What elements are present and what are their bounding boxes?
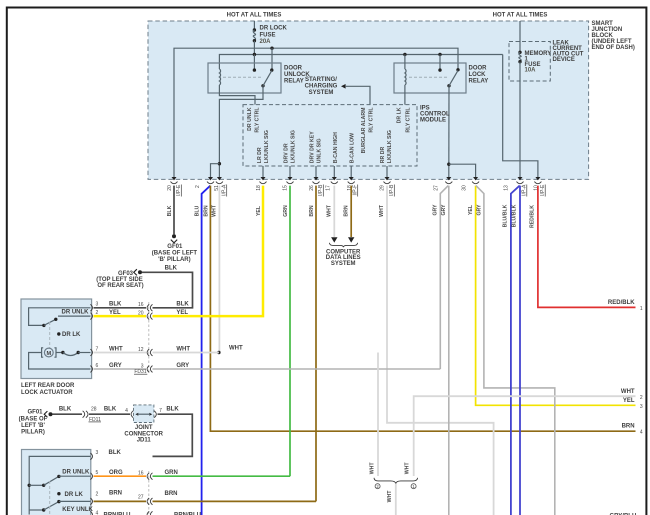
svg-text:BLK: BLK xyxy=(166,406,179,412)
wire K2 switch output to pins 27/30 xyxy=(448,86,450,178)
svg-text:13: 13 xyxy=(503,185,509,191)
relay K1 contact B (ground side) xyxy=(270,68,273,71)
wire GRY pin 30 (bend) down to bottom xyxy=(476,186,555,515)
wire rail 2 (power rail from DR LOCK fuse) xyxy=(219,55,502,70)
svg-text:RLY CTRL: RLY CTRL xyxy=(369,107,375,133)
mech linkage dashed (box1) xyxy=(49,322,51,348)
label LEAK CURRENT AUTO CUT DEVICE xyxy=(553,41,584,64)
wire from HOT AT ALL TIMES to MEMORY fuse xyxy=(519,21,521,52)
svg-text:BLK: BLK xyxy=(165,266,178,272)
svg-text:LEFT 'B': LEFT 'B' xyxy=(21,423,45,429)
label SMART JUNCTION BLOCK (UNDER LEFT END OF DASH) xyxy=(592,21,635,51)
wire contact to pin 5 xyxy=(59,475,91,477)
svg-text:DOOR: DOOR xyxy=(284,66,303,72)
wire WHT pin 17 B-CAN HIGH to data lines xyxy=(333,186,335,237)
wire rail2 to K2 contact A xyxy=(439,55,441,71)
leak current auto cut device dashed box xyxy=(509,42,550,82)
svg-text:LK/UNLK SIG: LK/UNLK SIG xyxy=(291,130,297,163)
svg-text:GRN: GRN xyxy=(283,205,289,217)
svg-text:UNLK SIG: UNLK SIG xyxy=(317,138,323,163)
SJB connector row arrows and connector marks xyxy=(171,177,542,184)
svg-text:(BASE OF LEFT: (BASE OF LEFT xyxy=(152,251,198,257)
svg-text:2: 2 xyxy=(96,310,99,316)
wire GRY pin 27 (bend) to rear actuator GRY xyxy=(440,186,448,369)
wire BLK GF01 to connector FD11 xyxy=(53,413,83,415)
svg-text:BLK: BLK xyxy=(59,406,72,412)
fuse F1 DR LOCK FUSE 20A xyxy=(253,26,288,46)
wire WHT row pin7/12 xyxy=(94,352,147,354)
wire YEL pin 18 to actuator (highlighted) xyxy=(153,186,264,317)
terminal circled 2 xyxy=(375,484,380,489)
svg-text:DEVICE: DEVICE xyxy=(553,57,575,63)
switch arm DR UNLK (box1) xyxy=(42,324,45,327)
svg-text:LK/UNLK SIG: LK/UNLK SIG xyxy=(264,130,270,163)
svg-text:17: 17 xyxy=(325,185,331,191)
wire from HOT AT ALL TIMES to DR LOCK fuse xyxy=(253,21,255,30)
svg-text:7: 7 xyxy=(96,346,99,352)
wire fuse output down to power rail 2 xyxy=(253,41,255,55)
smart junction block (SJB) box xyxy=(148,21,589,179)
svg-text:20: 20 xyxy=(138,310,144,316)
svg-text:'B' PILLAR): 'B' PILLAR) xyxy=(158,257,191,263)
svg-text:27: 27 xyxy=(433,185,439,191)
wire WHT pin 51 down to splice xyxy=(218,186,220,353)
svg-text:12: 12 xyxy=(138,347,144,353)
joint connector JD11 box xyxy=(134,405,154,423)
svg-text:DR LOCK: DR LOCK xyxy=(260,26,288,32)
ground GF03 point xyxy=(96,269,143,289)
svg-text:WHT: WHT xyxy=(379,204,385,217)
svg-text:GF01: GF01 xyxy=(27,409,43,415)
wire WHT right edge pin 2 to circled terminal 1 xyxy=(414,396,636,476)
svg-text:2: 2 xyxy=(96,491,99,497)
svg-text:RED/BLK: RED/BLK xyxy=(608,300,635,306)
svg-text:WHT: WHT xyxy=(109,346,123,352)
svg-text:M: M xyxy=(46,351,51,357)
svg-text:4: 4 xyxy=(96,511,99,515)
svg-text:30: 30 xyxy=(462,185,468,191)
svg-text:GRY: GRY xyxy=(433,204,439,216)
contact DR LK (box1) xyxy=(57,332,60,335)
connector C1 dashed line FD31 xyxy=(148,302,150,374)
wire BRN row pin2/27 xyxy=(94,500,147,502)
svg-text:MODULE: MODULE xyxy=(420,118,446,124)
connector arcs box1 rows xyxy=(147,304,149,311)
svg-text:BLU: BLU xyxy=(195,205,201,216)
svg-text:(TOP LEFT SIDE: (TOP LEFT SIDE xyxy=(96,277,142,283)
svg-text:LOCK: LOCK xyxy=(469,72,487,78)
switch arm DR UNLK (box2) xyxy=(29,484,44,486)
node rail2 to K2 contact A xyxy=(438,53,441,56)
label DOOR UNLOCK RELAY xyxy=(284,66,310,85)
node splice of unlock output xyxy=(218,162,221,165)
wire BRN pin 18 B-CAN LOW to data lines xyxy=(350,186,352,237)
relay K1 switch arm xyxy=(261,84,264,87)
svg-text:28: 28 xyxy=(91,407,97,413)
svg-text:2: 2 xyxy=(640,395,643,401)
svg-text:DR LK: DR LK xyxy=(62,332,81,338)
svg-text:JOINT: JOINT xyxy=(135,425,153,431)
wire rail 1 (ground rail from pin 20) xyxy=(174,48,458,177)
svg-text:HOT AT ALL TIMES: HOT AT ALL TIMES xyxy=(493,13,548,19)
wire internal from pin 3 to switch pivot xyxy=(29,308,91,326)
svg-text:27: 27 xyxy=(138,494,144,500)
node splice of lock output xyxy=(447,163,450,166)
node rail1 / unlock relay contact branch xyxy=(270,47,273,50)
connector C2 dashed line xyxy=(148,471,150,515)
svg-text:4: 4 xyxy=(640,430,643,436)
relay K2 internal dashed link xyxy=(409,76,447,78)
connector FD11 marks 28 xyxy=(83,411,85,418)
svg-text:STARTING/: STARTING/ xyxy=(305,77,337,83)
node rail2 to K2 coil xyxy=(403,53,406,56)
svg-text:4: 4 xyxy=(125,408,128,414)
svg-text:YEL: YEL xyxy=(176,310,188,316)
svg-text:LK/UNLK SIG: LK/UNLK SIG xyxy=(387,130,393,163)
svg-text:WHT: WHT xyxy=(176,346,190,352)
svg-text:WHT: WHT xyxy=(229,345,243,351)
wire K1 coil bottom to IPS DR UNLK RLY CTRL xyxy=(219,85,255,105)
wire K2 coil bottom to IPS DR LK RLY CTRL xyxy=(404,85,406,105)
svg-text:16: 16 xyxy=(138,302,144,308)
svg-text:3: 3 xyxy=(640,404,643,410)
label IPS CONTROL MODULE xyxy=(420,106,450,124)
wire BLU pin 2 down to bottom xyxy=(202,186,211,515)
actuator M2 front door lock actuator box xyxy=(22,450,91,515)
svg-text:26: 26 xyxy=(309,185,315,191)
wire K1 switch output to pins 2/51 xyxy=(219,86,263,178)
svg-text:SYSTEM: SYSTEM xyxy=(309,90,334,96)
wire BLK joint connector to front actuator pin 3 xyxy=(153,414,193,456)
contact DR LK (box2) xyxy=(57,492,60,495)
svg-text:SYSTEM: SYSTEM xyxy=(331,261,356,267)
svg-text:DRV DR KEY: DRV DR KEY xyxy=(310,131,316,163)
svg-text:(BASE OF: (BASE OF xyxy=(19,416,48,422)
svg-text:BLK: BLK xyxy=(176,302,189,308)
wire GRY pin 27 straight down to bottom xyxy=(448,186,450,515)
svg-text:20: 20 xyxy=(167,185,173,191)
svg-text:BLU/BLK: BLU/BLK xyxy=(512,204,518,227)
node internal branch (box2) xyxy=(28,484,31,487)
relay K2 DOOR LOCK RELAY box xyxy=(394,63,466,93)
wire rail1 branch to unlock relay fixed contact xyxy=(271,48,273,70)
svg-text:BLK: BLK xyxy=(167,205,173,216)
svg-text:3: 3 xyxy=(96,450,99,456)
wire YEL row pin2/20 (highlighted) xyxy=(94,315,147,318)
svg-text:FUSE: FUSE xyxy=(260,33,276,39)
terminal circled 1 xyxy=(411,484,416,489)
svg-text:GRY: GRY xyxy=(441,204,447,216)
svg-text:7: 7 xyxy=(159,408,162,414)
svg-text:BLU/BLK: BLU/BLK xyxy=(502,204,508,227)
wire BRN pin 2 to right edge pin 4 xyxy=(210,186,635,432)
svg-text:BRN: BRN xyxy=(109,491,122,497)
wire branch to pin 30 xyxy=(449,164,476,177)
wire to starting/charging system with arrow xyxy=(341,84,346,89)
svg-text:RLY CTRL: RLY CTRL xyxy=(405,107,411,133)
svg-text:GRY: GRY xyxy=(176,363,189,369)
svg-text:HOT AT ALL TIMES: HOT AT ALL TIMES xyxy=(227,13,282,19)
wire GRN pin 15 down xyxy=(289,186,291,477)
label DOOR LOCK RELAY xyxy=(469,66,489,85)
svg-text:DRV DR: DRV DR xyxy=(284,143,290,163)
svg-text:YEL: YEL xyxy=(468,204,474,215)
brace computer data lines xyxy=(329,243,357,247)
actuator box1 pin marks xyxy=(90,304,92,311)
wire WHT pin 29 down right and to bottom xyxy=(387,186,494,515)
wire GRY row pin6/3 to pin 27 wire xyxy=(94,368,147,370)
svg-text:ORG: ORG xyxy=(109,470,123,476)
wire internal from pin 3 down left side xyxy=(29,456,90,514)
svg-text:WHT: WHT xyxy=(211,204,217,217)
svg-text:KEY UNLK: KEY UNLK xyxy=(62,507,93,513)
wires IPS outputs to connector row xyxy=(262,166,264,178)
svg-text:RELAY: RELAY xyxy=(469,79,489,85)
svg-text:B-CAN LOW: B-CAN LOW xyxy=(350,133,356,163)
label STARTING/CHARGING SYSTEM xyxy=(305,77,338,96)
relay K2 contact B (ground side) xyxy=(456,68,459,71)
svg-text:GRY: GRY xyxy=(476,204,482,216)
wire WHT merged down to bottom xyxy=(395,484,397,515)
relay K1 coil xyxy=(219,69,220,85)
svg-text:B-CAN HIGH: B-CAN HIGH xyxy=(333,132,339,163)
svg-text:DR UNLK: DR UNLK xyxy=(62,310,90,316)
wire BRN pin 26 down xyxy=(315,186,317,502)
svg-text:15: 15 xyxy=(283,185,289,191)
wire RED/BLK pin 10 to right edge pin 1 xyxy=(538,186,636,308)
svg-text:PILLAR): PILLAR) xyxy=(21,429,45,435)
svg-text:RLY CTRL: RLY CTRL xyxy=(254,107,260,133)
svg-text:YEL: YEL xyxy=(623,398,635,404)
relay K1 contact A (fuse side) xyxy=(253,68,256,71)
wire BLK from GF03 to rear actuator pin 3 xyxy=(142,272,193,308)
wire GRN connector to vertical xyxy=(153,475,291,477)
actuator box2 pin marks xyxy=(90,453,92,460)
contact line to pin 2 xyxy=(58,315,91,317)
ground GF01 (lower) xyxy=(19,409,53,435)
wire ORG row pin5/16 to GRN xyxy=(94,475,147,477)
motor M (box1) xyxy=(42,348,56,357)
svg-text:BLK: BLK xyxy=(109,302,122,308)
fuse F2 MEMORY 1 FUSE 10A xyxy=(518,51,551,74)
svg-text:GRY: GRY xyxy=(109,363,122,369)
wire BLU/BLK pin 13 straight down to bottom xyxy=(519,186,521,515)
svg-text:DR LK: DR LK xyxy=(396,107,402,123)
svg-text:WHT: WHT xyxy=(387,490,393,503)
svg-text:16: 16 xyxy=(138,471,144,477)
relay K2 coil xyxy=(405,69,406,85)
svg-text:BRN: BRN xyxy=(622,424,635,430)
svg-text:BURGLAR ALARM: BURGLAR ALARM xyxy=(361,108,367,154)
svg-text:6: 6 xyxy=(96,363,99,369)
wire motor right to pin 7 with flex arc xyxy=(56,352,63,354)
node WHT splice with actuator wire xyxy=(217,351,220,354)
svg-text:END OF DASH): END OF DASH) xyxy=(592,45,635,51)
svg-text:5: 5 xyxy=(96,470,99,476)
svg-text:OF REAR SEAT): OF REAR SEAT) xyxy=(97,283,143,289)
wire BLK FD11 to joint connector xyxy=(89,413,130,415)
wire rail2 to K2 coil top xyxy=(404,55,406,70)
switch arm KEY UNLK (box2) xyxy=(29,509,44,511)
mech linkage dashed (box2) xyxy=(49,481,51,514)
svg-text:YEL: YEL xyxy=(109,310,121,316)
wire fuse feed into unlock relay contact xyxy=(253,55,255,71)
svg-text:JD11: JD11 xyxy=(137,438,152,444)
svg-text:RR DR: RR DR xyxy=(380,147,386,164)
label COMPUTER DATA LINES SYSTEM xyxy=(326,250,361,267)
module U1 IPS CONTROL MODULE dashed box xyxy=(243,105,417,166)
wire BRN connector to vertical xyxy=(153,500,317,502)
svg-text:10A: 10A xyxy=(525,68,537,74)
svg-text:CHARGING: CHARGING xyxy=(305,84,338,90)
svg-text:WHT: WHT xyxy=(369,462,375,475)
svg-text:MEMORY: MEMORY xyxy=(525,51,552,57)
wire memory fuse to pin 13 xyxy=(519,62,521,178)
svg-text:3: 3 xyxy=(96,302,99,308)
label JOINT CONNECTOR JD11 xyxy=(124,425,163,444)
svg-text:GF01: GF01 xyxy=(167,244,183,250)
svg-text:LR DR: LR DR xyxy=(257,147,263,163)
label LEFT REAR DOOR LOCK ACTUATOR xyxy=(21,383,75,396)
wire branch to pin 2 xyxy=(211,164,220,178)
svg-text:20A: 20A xyxy=(260,39,272,45)
wire BLK row pin3/16 xyxy=(94,307,147,309)
svg-text:DR LK: DR LK xyxy=(65,492,84,498)
svg-text:1: 1 xyxy=(640,306,643,312)
svg-text:DR UNLK: DR UNLK xyxy=(247,107,253,131)
svg-text:LOCK ACTUATOR: LOCK ACTUATOR xyxy=(21,390,73,396)
wire BLK pin 20 to ground GF01 xyxy=(173,186,175,235)
svg-text:CONNECTOR: CONNECTOR xyxy=(124,431,163,437)
wire BLU/BLK pin 13 (bend) down to bottom xyxy=(511,186,520,515)
svg-text:BRN: BRN xyxy=(343,205,349,216)
wire YEL pin 30 to right edge pin 3 xyxy=(476,186,636,406)
relay K1 DOOR UNLOCK RELAY box xyxy=(208,63,281,93)
svg-text:29: 29 xyxy=(379,185,385,191)
svg-text:BRN: BRN xyxy=(165,491,178,497)
brace merging WHT wires xyxy=(374,478,418,484)
svg-text:BRN: BRN xyxy=(204,205,210,216)
node fuse junction on rail2 xyxy=(253,53,256,56)
svg-text:RED/BLK: RED/BLK xyxy=(530,205,536,228)
relay K1 internal dashed link xyxy=(223,76,261,78)
relay K2 contact A (fuse side) xyxy=(438,68,441,71)
wire rail2 right end to pin 10 xyxy=(503,55,538,178)
svg-text:2: 2 xyxy=(195,185,201,188)
svg-text:GRN: GRN xyxy=(165,470,178,476)
svg-text:BRN: BRN xyxy=(309,205,315,216)
svg-text:RELAY: RELAY xyxy=(284,79,304,85)
svg-text:18: 18 xyxy=(256,185,262,191)
svg-text:BLK: BLK xyxy=(104,406,117,412)
svg-text:WHT: WHT xyxy=(405,462,411,475)
svg-text:YEL: YEL xyxy=(256,205,262,216)
svg-text:DOOR: DOOR xyxy=(469,66,488,72)
ground GF01 (upper) xyxy=(152,234,198,263)
connector arcs box2 rows xyxy=(147,473,149,480)
svg-text:WHT: WHT xyxy=(621,389,635,395)
svg-text:DR UNLK: DR UNLK xyxy=(62,470,90,476)
wire motor left to pin 6 xyxy=(29,353,91,370)
wire WHT to circled terminal 2 xyxy=(377,353,379,477)
svg-text:WHT: WHT xyxy=(326,204,332,217)
relay K2 switch arm xyxy=(447,84,450,87)
svg-text:BLK: BLK xyxy=(109,450,122,456)
svg-text:LEFT REAR DOOR: LEFT REAR DOOR xyxy=(21,383,75,389)
actuator M1 LEFT REAR DOOR LOCK ACTUATOR box xyxy=(21,299,92,379)
